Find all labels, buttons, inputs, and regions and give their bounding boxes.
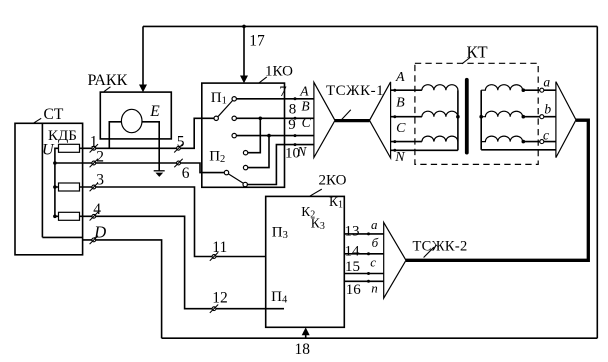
terminal b circle xyxy=(540,115,544,119)
contact 1KO c6 xyxy=(243,182,247,186)
resistor R2 xyxy=(59,183,80,191)
svg-text:П3: П3 xyxy=(272,225,288,242)
switch P2 blade xyxy=(228,174,243,183)
inductor KT secondary winding a xyxy=(481,85,522,91)
wire meter right lead to ground xyxy=(142,122,159,171)
svg-text:с: с xyxy=(370,255,376,270)
svg-text:13: 13 xyxy=(345,224,360,240)
wire line 10 xyxy=(247,145,314,185)
terminal c circle xyxy=(540,140,544,144)
svg-text:N: N xyxy=(394,150,405,165)
svg-text:c: c xyxy=(543,128,549,143)
svg-text:B: B xyxy=(396,96,405,111)
svg-text:C: C xyxy=(396,121,406,136)
arrow into RAKK xyxy=(139,85,147,93)
svg-text:b: b xyxy=(544,101,551,116)
svg-text:3: 3 xyxy=(96,172,104,189)
resistor R3 xyxy=(59,212,80,220)
svg-text:12: 12 xyxy=(212,289,228,306)
cable TSGK-1 slash xyxy=(340,110,351,122)
terminal 6 xyxy=(174,159,182,167)
node bus dot row2 xyxy=(53,161,57,165)
cable TSGK-2 triangle xyxy=(384,222,406,298)
svg-text:9: 9 xyxy=(288,117,296,133)
terminal 3 xyxy=(90,183,98,191)
node dot line 14 xyxy=(367,252,370,255)
wire phase B to KT xyxy=(391,116,422,118)
wire drop 17 to 1KO xyxy=(243,26,245,76)
wire line 13 xyxy=(344,233,383,235)
svg-text:15: 15 xyxy=(345,259,360,275)
cable TSGK-1 right triangle xyxy=(370,82,391,158)
wire KT secondary star bus xyxy=(480,90,482,150)
svg-text:5: 5 xyxy=(177,134,185,151)
svg-text:К3: К3 xyxy=(311,216,325,233)
wire phase A to KT xyxy=(391,89,422,91)
contact 1KO c2 xyxy=(232,116,236,120)
wire drop to RAKK xyxy=(142,26,144,85)
node bus dot row3 xyxy=(53,185,57,189)
wire KT primary star bus xyxy=(457,90,459,150)
node dot b xyxy=(522,115,526,119)
svg-text:П1: П1 xyxy=(211,90,227,107)
node dot line 13 xyxy=(367,232,370,235)
svg-text:С: С xyxy=(302,115,312,130)
switch P2 pole contact xyxy=(224,170,228,174)
node dot secondary star xyxy=(479,115,483,119)
svg-text:В: В xyxy=(301,98,309,113)
arrow into 1KO xyxy=(240,76,248,84)
wire line 1 to P1 pole xyxy=(80,118,214,148)
node bus dot row4 xyxy=(53,215,57,219)
wire KDB left bus xyxy=(55,148,59,216)
block RAKK box xyxy=(100,92,171,139)
wire secondary c out xyxy=(523,141,556,143)
label KT pointer tick xyxy=(462,58,470,64)
svg-text:U: U xyxy=(42,142,55,159)
node dot line 10 xyxy=(294,143,297,146)
node dot line 7 xyxy=(294,97,297,100)
block 1KO box xyxy=(202,83,285,187)
svg-text:2: 2 xyxy=(96,149,104,166)
node dot a xyxy=(522,88,526,92)
svg-text:РАКК: РАКК xyxy=(88,72,128,89)
contact 1KO c3 xyxy=(232,133,236,137)
svg-text:а: а xyxy=(371,217,378,232)
node dot primary star xyxy=(456,115,460,119)
node dot line 9 xyxy=(294,134,297,137)
terminal 5 xyxy=(174,144,182,152)
svg-text:ТСЖК-2: ТСЖК-2 xyxy=(413,238,468,254)
wire top bus rail xyxy=(143,25,597,27)
svg-text:8: 8 xyxy=(289,102,297,118)
label RAKK pointer tick xyxy=(104,87,111,92)
svg-text:a: a xyxy=(543,74,550,89)
inductor KT primary winding B xyxy=(422,111,458,117)
svg-text:1КО: 1КО xyxy=(265,64,293,80)
contact 1KO c4 xyxy=(243,151,247,155)
node dot N xyxy=(393,149,396,152)
node dot A xyxy=(393,89,396,92)
terminal 1 xyxy=(90,144,98,152)
svg-text:2КО: 2КО xyxy=(319,172,347,188)
block KDB partition xyxy=(42,123,82,237)
svg-text:КТ: КТ xyxy=(467,43,488,62)
wire riser c5 to line 9 xyxy=(248,136,269,168)
inductor KT primary winding A xyxy=(422,85,458,91)
wire line 4 to terminal 12 xyxy=(80,216,285,308)
switch P1 pole contact xyxy=(214,116,218,120)
svg-text:E: E xyxy=(149,103,160,120)
svg-text:N: N xyxy=(296,144,307,159)
svg-text:11: 11 xyxy=(212,239,227,256)
label 1KO pointer tick xyxy=(259,77,267,83)
cable head right triangle xyxy=(556,82,576,158)
switch P1 blade xyxy=(218,101,233,117)
svg-text:17: 17 xyxy=(249,33,265,50)
wire line 14 xyxy=(344,253,383,255)
node junction dot 17 xyxy=(242,25,246,29)
node dot line 15 xyxy=(367,272,370,275)
svg-text:6: 6 xyxy=(182,165,190,182)
block 2KO box xyxy=(266,196,345,327)
wire right bus rail xyxy=(596,26,598,338)
svg-text:П2: П2 xyxy=(209,149,225,166)
svg-text:14: 14 xyxy=(345,243,361,259)
svg-text:А: А xyxy=(299,83,309,98)
node dot B xyxy=(393,115,396,118)
resistor R1 xyxy=(59,144,80,152)
inductor KT primary winding C xyxy=(422,136,458,142)
svg-text:п: п xyxy=(371,281,378,296)
svg-text:A: A xyxy=(395,70,405,85)
cable TSGK-1 left triangle xyxy=(314,82,335,157)
svg-text:D: D xyxy=(93,222,106,241)
label CT pointer tick xyxy=(33,118,41,123)
wire line D to bottom rail xyxy=(83,240,162,338)
svg-text:4: 4 xyxy=(93,201,101,218)
wire secondary a out xyxy=(523,89,556,91)
wire secondary n out xyxy=(481,149,556,151)
wire phase C to KT xyxy=(391,141,422,143)
wire line 9 xyxy=(236,135,314,137)
terminal D xyxy=(90,236,98,244)
svg-text:7: 7 xyxy=(279,84,287,100)
node dot line 8 riser xyxy=(259,117,263,121)
terminal 11 xyxy=(210,252,218,260)
wire line 3 to terminal 11 xyxy=(80,187,266,257)
cable TSGK-2 slash xyxy=(424,247,434,257)
contact 1KO c5 xyxy=(243,165,247,169)
ground xyxy=(154,171,165,177)
terminal 2 xyxy=(90,159,98,167)
meter E circle xyxy=(121,109,142,132)
wire meter left lead to line 1 xyxy=(109,122,121,149)
contact 1KO c1 xyxy=(232,97,236,101)
node dot line 9 riser xyxy=(267,134,271,138)
inductor KT secondary winding c xyxy=(481,136,522,142)
wire line 16 xyxy=(344,280,383,282)
terminal a circle xyxy=(540,88,544,92)
transformer KT dashed box xyxy=(415,63,538,164)
svg-text:ТСЖК-1: ТСЖК-1 xyxy=(326,83,384,99)
node dot line 16 xyxy=(367,280,370,283)
svg-text:СТ: СТ xyxy=(44,106,64,123)
wire bottom bus rail xyxy=(162,337,598,339)
terminal 12 xyxy=(210,305,218,313)
cable TSGK-1 thick link xyxy=(335,119,370,122)
wire line 2 to P2 pole xyxy=(55,163,225,173)
wire line 8 xyxy=(236,117,314,119)
svg-text:П4: П4 xyxy=(271,289,288,306)
block CT box xyxy=(15,123,83,255)
wire riser c4 to line 8 xyxy=(248,118,260,152)
wire line 15 xyxy=(344,273,383,275)
node dot c xyxy=(522,140,526,144)
wire 18 riser xyxy=(305,333,307,338)
arrow 18 into 2KO xyxy=(302,327,310,335)
transformer KT core bar xyxy=(465,80,469,153)
node dot line 8 xyxy=(294,117,297,120)
wire thick feeder cable xyxy=(406,120,588,260)
wire neutral N to KT xyxy=(391,149,458,151)
label 2KO pointer tick xyxy=(310,189,322,196)
inductor KT secondary winding b xyxy=(481,111,522,117)
node dot C xyxy=(393,140,396,143)
wire line 7 xyxy=(236,98,314,100)
svg-text:б: б xyxy=(372,235,379,250)
wire secondary b out xyxy=(523,116,556,118)
svg-text:16: 16 xyxy=(346,282,362,298)
svg-text:18: 18 xyxy=(295,341,311,358)
terminal 4 xyxy=(90,212,98,220)
